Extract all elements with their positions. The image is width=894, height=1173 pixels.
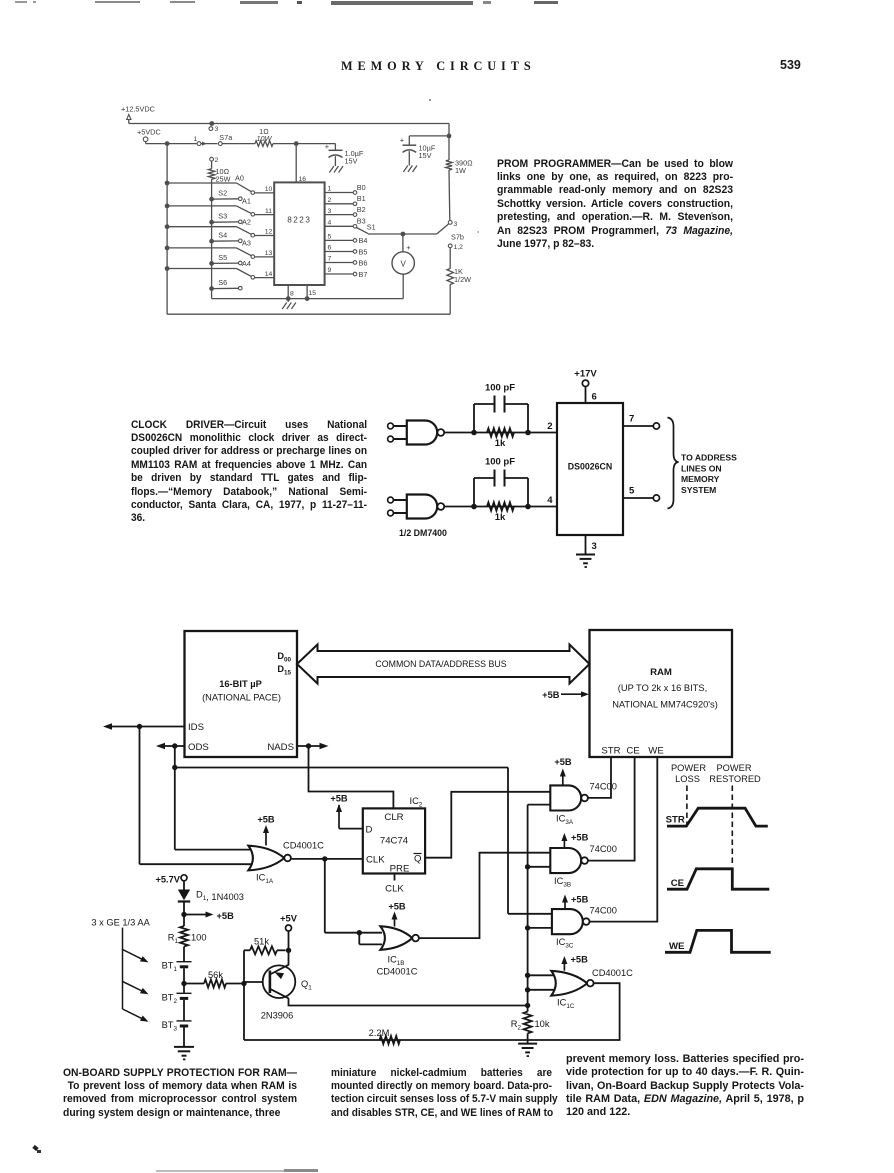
ground below batteries	[174, 1046, 194, 1048]
switch S7a	[194, 133, 234, 146]
svg-text:5: 5	[629, 486, 635, 497]
switch S4 / contact A2	[165, 217, 275, 243]
svg-text:12: 12	[265, 229, 273, 236]
svg-text:100 pF: 100 pF	[485, 457, 515, 468]
wire outer bottom loop	[167, 285, 450, 315]
+5B arrow into RAM	[542, 690, 589, 700]
wire IC1A output to CLK	[291, 856, 363, 861]
svg-text:+: +	[325, 142, 330, 151]
wire CLK node down to IC1B inputs	[325, 859, 382, 945]
svg-text:2: 2	[328, 197, 332, 204]
svg-text:2.2M: 2.2M	[369, 1028, 390, 1038]
resistor R1 100	[168, 915, 207, 962]
svg-text:7: 7	[629, 414, 634, 425]
svg-text:+5B: +5B	[257, 815, 275, 825]
svg-text:NADS: NADS	[267, 742, 294, 753]
output pin 5 B4	[325, 234, 368, 246]
switch S6 / contact A4	[165, 259, 275, 291]
svg-text:CE: CE	[671, 878, 685, 889]
svg-text:CLK: CLK	[385, 884, 404, 895]
svg-text:IC3B: IC3B	[554, 876, 571, 889]
+5B takeoff	[181, 911, 234, 921]
svg-text:1W: 1W	[455, 166, 466, 175]
IDS wire	[103, 723, 185, 730]
svg-text:3: 3	[215, 126, 219, 133]
svg-text:A0: A0	[235, 174, 244, 183]
ODS wire	[156, 743, 185, 749]
waveform CE	[667, 869, 769, 889]
svg-text:DS0026CN: DS0026CN	[568, 462, 613, 472]
output pin 1 B0	[325, 183, 366, 194]
svg-text:POWER: POWER	[671, 763, 706, 773]
svg-text:2: 2	[215, 157, 219, 164]
svg-text:1k: 1k	[495, 438, 506, 449]
svg-text:A2: A2	[242, 217, 251, 226]
wire IC1B output to IC3B riser	[419, 853, 550, 938]
output pin 9 B7	[325, 267, 368, 279]
svg-text:S7a: S7a	[219, 133, 233, 142]
IC DS0026CN	[557, 403, 623, 535]
svg-text:R1: R1	[168, 933, 179, 946]
NAND IC3B 74C00	[525, 833, 617, 889]
svg-text:1: 1	[194, 136, 198, 143]
switch S3 / contact A1	[165, 197, 275, 225]
wire ODS node to IC1A top input	[175, 849, 252, 851]
wire IDS node down to IC1A	[140, 727, 253, 865]
svg-text:74C74: 74C74	[380, 836, 409, 847]
ground below C1	[329, 166, 334, 173]
svg-text:+5B: +5B	[571, 833, 589, 843]
svg-text:POWER: POWER	[716, 763, 751, 773]
svg-text:3: 3	[592, 541, 597, 552]
svg-text:3: 3	[454, 221, 458, 228]
RAM box	[590, 630, 733, 757]
terminal +5V	[280, 914, 298, 966]
svg-text:6: 6	[592, 392, 597, 403]
svg-text:B7: B7	[359, 270, 368, 279]
svg-text:+5B: +5B	[542, 690, 560, 700]
svg-text:+5V: +5V	[280, 914, 298, 924]
page number 539	[780, 58, 801, 72]
svg-text:25W: 25W	[216, 174, 231, 183]
svg-text:+: +	[400, 135, 405, 144]
svg-text:BT1: BT1	[162, 961, 178, 974]
svg-text:A4: A4	[242, 259, 251, 268]
output pin 7	[623, 414, 660, 430]
svg-text:100 pF: 100 pF	[485, 383, 515, 394]
brace to address lines	[668, 418, 679, 509]
svg-text:+: +	[406, 243, 411, 252]
svg-text:100: 100	[191, 933, 207, 943]
node 2 contact + resistor 10ohm 25W	[208, 157, 230, 183]
svg-text:+5B: +5B	[217, 911, 235, 921]
svg-text:LINES ON: LINES ON	[681, 463, 722, 473]
switch S5 / contact A3	[165, 239, 275, 266]
running head	[341, 59, 536, 74]
scanner artifact marks bottom	[32, 1145, 38, 1151]
svg-text:(NATIONAL PACE): (NATIONAL PACE)	[202, 693, 281, 703]
output pin 7 B6	[325, 256, 368, 268]
capacitor 100 pF (lower)	[471, 457, 531, 510]
svg-text:COMMON DATA/ADDRESS BUS: COMMON DATA/ADDRESS BUS	[375, 659, 506, 669]
svg-text:B3: B3	[357, 217, 366, 226]
NAND gate 1/2 DM7400 (lower)	[388, 495, 445, 519]
svg-text:IC2: IC2	[410, 796, 423, 809]
wire 390ohm to S7b contact 3	[448, 170, 451, 220]
svg-text:B1: B1	[357, 194, 366, 203]
svg-text:11: 11	[265, 208, 272, 215]
svg-text:V: V	[401, 260, 407, 269]
output pin 6 B5	[325, 245, 368, 257]
svg-text:51k: 51k	[254, 937, 269, 947]
svg-text:4: 4	[547, 495, 553, 506]
svg-text:5: 5	[328, 234, 332, 241]
svg-text:NATIONAL MM74C920's): NATIONAL MM74C920's)	[612, 700, 718, 710]
svg-text:+5.7V: +5.7V	[155, 875, 180, 885]
ground below R2	[518, 1043, 537, 1045]
NAND IC3C 74C00	[508, 895, 617, 950]
rail 2 vertical	[212, 179, 404, 298]
switch S1	[357, 223, 376, 234]
output pin 2 B1	[325, 194, 366, 205]
dashed line power restored	[731, 786, 733, 867]
svg-text:74C00: 74C00	[590, 906, 617, 916]
svg-text:IC1C: IC1C	[557, 998, 575, 1011]
svg-text:STR: STR	[601, 746, 620, 757]
PRE/CLK stub below	[385, 874, 404, 895]
wire gate output to pin (upper)	[444, 432, 557, 434]
svg-text:S4: S4	[218, 231, 227, 240]
resistor 1k (upper)	[487, 428, 514, 449]
wire to pin16 junction	[273, 143, 335, 145]
svg-text:STR: STR	[666, 815, 685, 826]
svg-text:1/2 DM7400: 1/2 DM7400	[399, 528, 447, 538]
svg-text:TO ADDRESS: TO ADDRESS	[681, 453, 737, 463]
svg-text:R2: R2	[511, 1019, 522, 1032]
resistor 1k (lower)	[487, 502, 514, 523]
output pin 4 B3	[325, 217, 366, 228]
svg-text:+5VDC: +5VDC	[137, 128, 161, 137]
svg-text:CD4001C: CD4001C	[592, 968, 633, 978]
common data/address bus arrow	[297, 645, 590, 684]
svg-text:Q: Q	[414, 854, 421, 865]
svg-text:6: 6	[328, 245, 332, 252]
svg-text:CLR: CLR	[384, 812, 403, 823]
resistor 390 ohm 1W	[446, 159, 473, 176]
dashed line power loss	[686, 786, 688, 828]
svg-text:+5B: +5B	[330, 794, 348, 804]
output pin 3 B2	[325, 205, 366, 216]
label 3 x GE 1/3 AA with arrows	[91, 918, 150, 1022]
svg-text:S6: S6	[218, 278, 227, 287]
NOR gate IC1B CD4001C	[377, 902, 419, 977]
resistor 1K 1/2W	[447, 248, 471, 285]
svg-text:RESTORED: RESTORED	[709, 774, 761, 784]
ground below C2	[403, 166, 408, 173]
svg-text:S2: S2	[218, 189, 227, 198]
terminal +17V pin 6	[574, 369, 597, 404]
svg-text:B2: B2	[357, 205, 366, 214]
labels POWER LOSS / POWER RESTORED	[671, 763, 761, 784]
svg-text:B0: B0	[357, 183, 366, 192]
voltmeter V	[392, 234, 414, 299]
svg-text:A1: A1	[242, 197, 251, 206]
output pin 5	[623, 486, 660, 502]
resistor 1 ohm 10W	[255, 127, 273, 146]
svg-text:WE: WE	[648, 746, 663, 757]
svg-text:LOSS: LOSS	[675, 774, 700, 784]
node 3 (S7 position-3 contact)	[209, 121, 219, 133]
svg-text:3 x GE 1/3 AA: 3 x GE 1/3 AA	[91, 918, 150, 928]
wire STR: RAM pin to IC3A output	[588, 757, 611, 798]
junction on right rail	[447, 124, 452, 161]
svg-text:+5B: +5B	[571, 895, 589, 905]
transistor Q1 2N3906	[241, 965, 312, 1021]
wire CE: RAM pin to IC3B output	[588, 757, 635, 861]
svg-text:WE: WE	[669, 941, 685, 952]
svg-text:IDS: IDS	[188, 722, 204, 733]
NAND gate 1/2 DM7400 (upper)	[388, 421, 445, 445]
waveform STR	[666, 808, 768, 826]
long wire ODS to IC3C riser	[175, 768, 508, 914]
svg-text:2: 2	[547, 421, 552, 432]
svg-text:B5: B5	[359, 247, 368, 256]
capacitor C2 10uF 15V	[400, 135, 449, 165]
resistor R2 10k	[511, 1003, 550, 1044]
svg-text:1,2: 1,2	[454, 244, 464, 251]
svg-text:10W: 10W	[256, 134, 272, 143]
svg-text:IC1B: IC1B	[387, 955, 404, 968]
terminal +5.7V	[155, 875, 187, 890]
battery BT1	[162, 961, 192, 984]
svg-text:B6: B6	[359, 258, 368, 267]
svg-text:+12.5VDC: +12.5VDC	[121, 105, 155, 114]
svg-text:10: 10	[265, 186, 273, 193]
svg-text:ODS: ODS	[188, 742, 209, 753]
wire to resistor 1ohm	[222, 143, 255, 145]
svg-text:A3: A3	[242, 239, 251, 248]
svg-text:1k: 1k	[495, 512, 506, 523]
svg-text:CD4001C: CD4001C	[283, 841, 324, 851]
pin 3 + ground	[586, 535, 597, 554]
capacitor 100 pF (upper)	[471, 383, 531, 436]
svg-text:7: 7	[328, 256, 332, 263]
NOR IC1C CD4001C	[525, 955, 633, 1011]
svg-text:B4: B4	[359, 236, 368, 245]
16-BIT uP (NATIONAL PACE) box	[185, 631, 298, 757]
NOR gate IC1A CD4001C	[248, 815, 324, 886]
svg-text:+5B: +5B	[388, 902, 406, 912]
svg-text:8223: 8223	[287, 216, 311, 225]
wire WE: RAM pin to IC3C output	[590, 757, 658, 922]
resistor 2.2M	[369, 1028, 400, 1044]
junction node pin16 feed	[294, 141, 299, 146]
switch S2 / contact A0	[165, 174, 275, 202]
svg-text:74C00: 74C00	[590, 782, 617, 792]
wire +12.5V top rail	[129, 120, 449, 124]
wire ODS node down	[172, 746, 177, 850]
scanner artifact marks top edge	[15, 1, 27, 3]
svg-text:74C00: 74C00	[590, 844, 617, 854]
rail IC3A bottom input down to R2	[528, 805, 551, 1012]
pin 8 stub + ground	[286, 285, 294, 302]
svg-text:+5B: +5B	[571, 955, 589, 965]
svg-text:CE: CE	[626, 746, 639, 757]
svg-text:9: 9	[328, 267, 332, 274]
label TO ADDRESS LINES ON MEMORY SYSTEM	[681, 453, 737, 495]
svg-text:S1: S1	[367, 223, 376, 232]
IC 8223	[274, 182, 324, 285]
terminal +5VDC	[137, 128, 161, 142]
svg-text:D1, 1N4003: D1, 1N4003	[196, 890, 244, 903]
left rail	[165, 141, 170, 314]
svg-text:15V: 15V	[419, 151, 432, 160]
svg-text:2N3906: 2N3906	[261, 1011, 294, 1021]
svg-text:CLK: CLK	[366, 855, 385, 866]
svg-text:1: 1	[328, 186, 332, 193]
svg-text:BT3: BT3	[162, 1020, 178, 1033]
terminal +12.5VDC	[121, 105, 155, 120]
svg-text:14: 14	[265, 271, 273, 278]
svg-text:+5B: +5B	[554, 757, 572, 767]
diode D1 1N4003	[178, 890, 244, 915]
battery BT3	[162, 1020, 192, 1047]
wire NADS to CLR	[309, 746, 394, 808]
pin 15 stub	[305, 285, 317, 301]
svg-text:56k: 56k	[208, 970, 223, 980]
NAND IC3A 74C00	[550, 757, 617, 826]
svg-text:15V: 15V	[345, 157, 358, 166]
svg-text:13: 13	[265, 250, 273, 257]
wire Qbar to IC3A riser	[425, 792, 550, 858]
svg-text:(UP TO 2k x 16 BITS,: (UP TO 2k x 16 BITS,	[618, 683, 707, 693]
svg-text:4: 4	[328, 220, 332, 227]
NADS wire	[297, 743, 329, 749]
capacitor C1 1.0uF 15V	[325, 142, 364, 166]
wire collector to rail	[289, 998, 528, 1005]
+5B into D input	[330, 794, 362, 829]
switch S7b	[437, 221, 464, 252]
wire junction to 8223 pin 16	[296, 144, 306, 183]
svg-text:IC3A: IC3A	[556, 814, 574, 827]
wire IC1C output feedback loop	[244, 983, 620, 1040]
svg-text:8: 8	[290, 291, 294, 298]
svg-text:3: 3	[328, 208, 332, 215]
svg-text:IC1A: IC1A	[256, 873, 274, 886]
wire S1 to S7b	[368, 232, 437, 237]
svg-text:S5: S5	[218, 253, 227, 262]
svg-text:D: D	[366, 825, 373, 836]
wire +5V rail	[146, 142, 197, 144]
svg-text:CD4001C: CD4001C	[377, 967, 418, 977]
flip-flop IC2 74C74	[363, 796, 425, 875]
svg-text:S3: S3	[218, 212, 227, 221]
svg-text:Q1: Q1	[301, 979, 312, 992]
svg-text:SYSTEM: SYSTEM	[681, 485, 716, 495]
svg-text:1/2W: 1/2W	[454, 275, 471, 284]
svg-text:10k: 10k	[535, 1019, 550, 1029]
svg-text:15: 15	[309, 290, 317, 297]
svg-text:BT2: BT2	[162, 993, 178, 1006]
svg-text:PRE: PRE	[390, 864, 410, 875]
svg-text:S7b: S7b	[451, 233, 464, 242]
scan speck near top wire	[429, 99, 431, 101]
waveform WE	[665, 930, 771, 952]
resistor 56k	[184, 970, 244, 988]
battery BT2	[162, 981, 192, 1021]
svg-text:MEMORY: MEMORY	[681, 474, 720, 484]
wire gate output to pin (lower)	[444, 506, 557, 508]
svg-text:IC3C: IC3C	[556, 937, 574, 950]
svg-text:RAM: RAM	[650, 667, 672, 678]
resistor 51k	[244, 937, 286, 1041]
svg-text:16-BIT µP: 16-BIT µP	[219, 679, 262, 689]
svg-text:+17V: +17V	[574, 369, 597, 380]
